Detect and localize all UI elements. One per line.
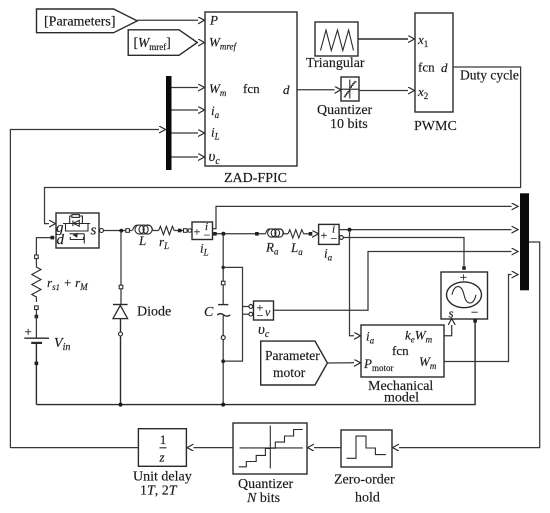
svg-text:L: L [138,233,146,248]
junction diode top [119,229,123,233]
svg-text:d: d [441,60,448,75]
wire capacitor to rail [222,316,224,405]
svg-text:Duty cycle: Duty cycle [460,68,519,83]
port diode bottom [119,332,123,336]
svg-text:fcn: fcn [392,343,409,358]
junction capacitor top [221,232,225,236]
svg-text:+: + [321,228,328,242]
svg-text:+: + [194,225,201,239]
port L left [126,229,130,233]
wire iL out to Ra [213,233,266,235]
port capacitor top [221,281,225,285]
block current measure ia [319,224,340,263]
svg-text:Parameter: Parameter [265,348,320,363]
svg-text:fcn: fcn [418,60,435,75]
svg-text:[Parameters]: [Parameters] [44,15,116,30]
wire capacitor branch [222,234,224,305]
wire ia to mechanical model [350,230,355,336]
port diode top [119,285,123,289]
wire vc to mux [274,252,512,311]
wire MOSFET d to resistor [36,238,54,264]
svg-text:Zero-order: Zero-order [334,473,395,488]
port source top [462,266,466,270]
svg-text:ZAD-FPIC: ZAD-FPIC [224,171,287,186]
svg-text:−: − [204,228,211,242]
port iL out [213,232,217,236]
from tag [Wmref] [128,30,197,56]
svg-text:d: d [57,232,65,248]
junction capacitor rail [221,403,225,407]
svg-text:+: + [460,270,467,285]
block Unit delay [133,429,192,499]
wire Wmref to block [196,42,199,44]
wire Parameter motor to Pmotor [327,362,354,364]
block voltage measure vc [249,301,274,341]
wire junction down to diode [120,231,122,305]
svg-text:+: + [25,324,32,339]
block Quantizer N bits [233,423,307,506]
resistor rs+rM [32,264,88,302]
svg-text:−: − [471,305,478,320]
svg-text:−: − [257,309,264,323]
ports resistor bottom [35,306,39,310]
wire demux to ia [172,109,199,111]
block PWMC [414,13,457,134]
wire duty cycle [45,67,521,224]
wire demux to vc [172,156,199,158]
svg-text:PWMC: PWMC [414,119,457,134]
wire demux to iL [172,132,199,134]
svg-text:1T, 2T: 1T, 2T [140,484,178,499]
inductor L [133,225,153,248]
svg-text:fcn: fcn [243,81,260,96]
port Ra left [255,232,259,236]
wire battery to rail [35,343,37,405]
wire L to rL [153,230,159,232]
diode [113,305,171,320]
block current measure iL [192,221,213,258]
svg-text:Quantizer: Quantizer [317,103,373,118]
wire mux output down to ZOH [399,242,540,448]
wire ZOH to Quantizer N [314,447,341,449]
svg-text:−: − [331,232,338,246]
wire ia elec to source [339,238,464,267]
port capacitor bottom [221,336,225,340]
svg-text:Unit delay: Unit delay [133,470,192,485]
wire Wm to mux [444,275,512,362]
junction ia to mech [348,228,352,232]
svg-text:N bits: N bits [246,491,280,506]
demux bar [166,76,172,170]
wire resistor to battery [35,310,37,339]
wire Parameters to P [137,19,198,21]
svg-text:Quantizer: Quantizer [238,477,294,492]
wire rL to iL block [174,230,189,232]
capacitor C [204,305,230,320]
svg-text:d: d [283,82,290,97]
block Zero-order hold [334,430,395,506]
svg-text:v: v [265,305,271,319]
ground rail [36,322,475,405]
from tag [Parameters] [37,9,138,33]
wire Quantizer to x2 [359,90,408,92]
svg-text:s: s [449,306,454,321]
svg-text:10 bits: 10 bits [330,117,368,132]
wire Ra to La [282,233,288,235]
svg-text:model: model [384,391,419,406]
junction vc bottom tap [221,359,225,363]
svg-text:z: z [159,450,165,465]
port s [100,229,104,233]
block Quantizer 10 bits [317,77,373,132]
svg-text:hold: hold [355,491,380,506]
wire diode to rail [120,319,122,405]
wire Quantizer N to Unit delay [194,447,234,449]
block controlled voltage source [441,270,488,321]
port ia elec out [340,236,344,240]
port battery bottom [35,362,39,366]
from tag Parameter motor [261,341,328,385]
resistor rL [159,226,175,251]
svg-text:motor: motor [273,365,306,380]
svg-text:s: s [91,223,97,239]
ports before iL block [178,229,182,233]
wire Triangular to x1 [358,38,408,40]
vc measure taps [222,266,250,361]
wire feedback into demux [10,130,159,449]
wire demux to Wm [172,87,199,89]
ports before ia block [309,232,313,236]
port source minus [473,319,477,323]
wire MOSFET s to L [101,230,132,232]
mux bar right [520,193,529,290]
inductor Ra [265,229,284,257]
block MOSFET [56,213,99,248]
port d [51,236,55,240]
wire iL signal to mux [213,206,512,228]
wire d to Quantizer [297,89,335,91]
junction diode rail [119,403,123,407]
wire keWm to source s [444,325,452,336]
svg-text:Triangular: Triangular [306,56,365,71]
port resistor top [35,255,39,259]
block Mechanical model [361,325,444,406]
svg-text:P: P [209,13,218,28]
svg-text:1: 1 [160,432,167,447]
wire ia signal to mux [339,229,511,231]
wire La to ia block [304,233,312,235]
block ZAD-FPIC [205,12,297,186]
resistor La [288,230,304,257]
svg-text:Diode: Diode [137,305,171,320]
wire Unit delay to feedback [10,447,138,449]
block Triangular [306,22,365,71]
svg-text:C: C [204,305,214,320]
battery Vin [24,324,70,353]
